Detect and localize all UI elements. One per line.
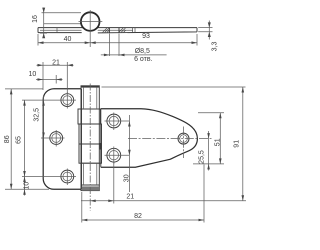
dim 16 — [32, 8, 81, 39]
svg-text:91: 91 — [234, 140, 241, 148]
svg-text:86: 86 — [4, 135, 11, 143]
hole1 centerline extension left — [22, 99, 59, 101]
double break ticks — [133, 28, 135, 33]
hole2 centerline extension left — [41, 137, 48, 139]
left leaf hole 3 — [59, 169, 77, 186]
circle centerlines — [79, 10, 103, 47]
strip left piece — [38, 24, 83, 33]
svg-text:Ø8,5: Ø8,5 — [135, 48, 150, 55]
dim 25,5 — [199, 131, 210, 171]
dim 32,5 — [33, 96, 45, 138]
svg-text:10: 10 — [24, 182, 31, 190]
dim 30 — [123, 115, 130, 192]
svg-text:51: 51 — [214, 138, 221, 146]
barrel knuckles — [78, 86, 102, 191]
strip right piece — [97, 28, 197, 33]
right leaf hole 1 — [105, 113, 130, 131]
svg-text:93: 93 — [142, 33, 150, 40]
svg-text:30: 30 — [123, 174, 130, 182]
svg-text:65: 65 — [15, 136, 22, 144]
dim 86 — [4, 89, 49, 189]
svg-text:21: 21 — [126, 193, 134, 200]
hole3 centerline extension left — [22, 176, 59, 178]
hatch patch B — [119, 28, 125, 33]
dim 65 — [15, 100, 26, 176]
barrel circle — [81, 12, 100, 31]
right leaf outline — [101, 109, 198, 167]
dim 3,3 — [198, 21, 218, 52]
svg-text:21: 21 — [52, 60, 60, 67]
dim 91 — [102, 87, 246, 201]
dim 40 — [38, 34, 90, 46]
hole walls (section) — [109, 28, 119, 33]
svg-text:40: 40 — [64, 36, 72, 43]
dim 21 top — [37, 60, 74, 93]
dim 82 — [82, 165, 204, 223]
hatch patch A — [103, 28, 110, 33]
svg-text:32,5: 32,5 — [33, 108, 40, 122]
dim 10 left — [23, 177, 30, 196]
svg-text:6 отв.: 6 отв. — [134, 56, 153, 63]
right leaf hole 2 — [105, 147, 130, 165]
left leaf hole 1 — [59, 92, 77, 109]
dim 21 bottom — [81, 163, 246, 204]
svg-text:16: 16 — [32, 15, 39, 23]
svg-text:82: 82 — [134, 213, 142, 220]
svg-text:10: 10 — [29, 71, 37, 78]
dim 10 top — [29, 71, 63, 84]
right leaf big hole — [128, 127, 212, 159]
dim 51 — [193, 113, 224, 164]
dim 93 — [90, 33, 197, 45]
hinge axis centerline — [89, 84, 91, 211]
left leaf hole 2 — [48, 130, 65, 147]
left leaf outline — [43, 89, 81, 190]
dim Ø8,5 / 6 otv leader — [101, 34, 167, 63]
svg-text:3,3: 3,3 — [211, 42, 218, 52]
svg-text:25,5: 25,5 — [199, 150, 206, 164]
